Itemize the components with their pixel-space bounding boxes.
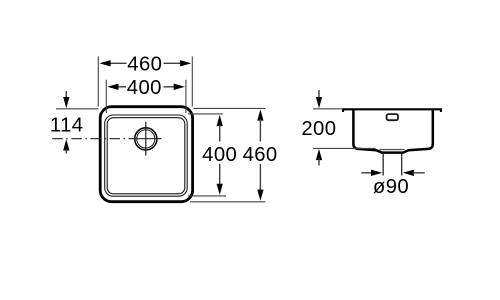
section view: drain pipe left line (382, 153, 384, 175)
top 460 dimension: right extension line (191, 56, 193, 106)
top 460 dimension: right arrowhead (180, 60, 191, 66)
plan view: drain outer circle (135, 128, 157, 150)
left 114 dimension: top extension line (56, 108, 99, 110)
top 460 dimension: left arrowhead (99, 60, 110, 66)
left 114 dimension: upper arrow tail (65, 91, 67, 99)
diameter 90 dimension: right arrow tail (412, 172, 424, 174)
left 114 dimension: lower arrow tail (65, 149, 67, 154)
right 400 dimension: lower arrowhead pointing down (217, 184, 223, 195)
section view: bowl outline (353, 110, 432, 153)
top 400 dimension: left extension line (105, 80, 107, 113)
200 dimension: upper arrow tail (318, 90, 320, 99)
svg-text:400: 400 (127, 77, 162, 99)
right 460 dimension: lower arrowhead pointing down (257, 190, 263, 201)
right 400 dimension: lower line segment (219, 164, 221, 187)
right 400 dimension: upper line segment (219, 125, 221, 142)
right 460 dimension: bottom extension line (190, 201, 266, 203)
right 460 dimension: upper line segment (259, 119, 261, 142)
right 400 dimension: upper arrowhead pointing up (217, 115, 223, 126)
right 400 dimension: bottom extension line (188, 195, 226, 197)
top 400 dimension: right arrowhead (174, 84, 185, 90)
right 460 dimension: lower line segment (259, 164, 261, 192)
right 400 dimension: top extension line (188, 113, 223, 115)
svg-text:400: 400 (202, 144, 237, 166)
left 114 dimension: upper arrowhead pointing down (63, 97, 69, 108)
horizontal dash-dot centerline from 114 dimension to drain (52, 138, 129, 140)
200 dimension: top extension line (313, 108, 343, 110)
top 460 dimension: right line segment (164, 62, 184, 64)
drain vertical crosshair centerline (145, 122, 147, 156)
svg-text:200: 200 (301, 118, 336, 140)
top 460 dimension: left line segment (108, 62, 127, 64)
top 400 dimension: left arrowhead (107, 84, 118, 90)
right 460 dimension: top extension line (194, 107, 266, 109)
top 400 dimension: right line segment (164, 86, 178, 88)
right 460 dimension: upper arrowhead pointing up (257, 109, 263, 120)
diameter 90 dimension: left arrow tail (361, 172, 372, 174)
svg-text:460: 460 (127, 53, 162, 75)
drain horizontal crosshair solid segment (130, 138, 162, 140)
section view: overflow hole (387, 114, 398, 120)
200 dimension: lower arrowhead pointing up (316, 149, 322, 160)
section view: drain pipe right line (401, 153, 403, 175)
diameter 90 dimension: right arrowhead pointing left (403, 170, 414, 176)
svg-text:114: 114 (50, 115, 84, 137)
diameter 90 dimension: left arrowhead pointing right (371, 170, 382, 176)
svg-text:460: 460 (243, 144, 278, 166)
plan view: sink outer rim (thick rounded square) (100, 107, 192, 202)
200 dimension: bottom extension line (313, 147, 376, 149)
200 dimension: upper arrowhead pointing down (316, 97, 322, 108)
plan view: bowl inner edge outer thin line (105, 115, 188, 196)
section view: drain flange upper line (380, 148, 405, 150)
top 460 dimension: left extension line (97, 56, 99, 106)
section view: drain flange mid light line (382, 150, 402, 152)
section view: rim top line with end ticks (343, 109, 441, 112)
top 400 dimension: left line segment (115, 86, 126, 88)
plan view: drain inner circle (137, 130, 155, 148)
top 400 dimension: right extension line (185, 80, 187, 113)
svg-text:ø90: ø90 (373, 176, 409, 198)
left 114 dimension: lower arrowhead pointing up (63, 139, 69, 150)
plan view: bowl inner edge inner thin line (107, 118, 185, 194)
200 dimension: lower arrow tail (318, 158, 320, 166)
